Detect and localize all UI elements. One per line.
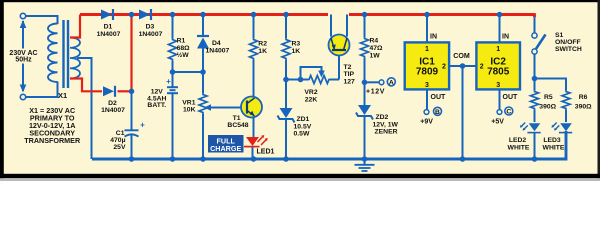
transformer X1 primary winding xyxy=(48,24,57,83)
svg-text:R5: R5 xyxy=(544,94,553,101)
svg-text:CHARGE: CHARGE xyxy=(210,144,241,153)
node terminal C xyxy=(497,110,502,115)
svg-text:0.5W: 0.5W xyxy=(294,131,310,138)
svg-text:390Ω: 390Ω xyxy=(539,103,556,110)
battery BATT 12V 4.5AH xyxy=(172,72,174,87)
svg-text:BC548: BC548 xyxy=(227,122,248,129)
svg-text:10K: 10K xyxy=(183,107,196,114)
node AC terminal top xyxy=(20,13,25,18)
resistor R6 390ohm xyxy=(562,90,570,110)
wire top +12V rail left segment xyxy=(80,13,328,16)
svg-text:470µ: 470µ xyxy=(110,137,125,144)
wire junction to R6 xyxy=(535,79,567,91)
zener ZD1 10.5V xyxy=(285,80,287,109)
svg-text:IN: IN xyxy=(502,33,509,40)
svg-text:R2: R2 xyxy=(258,41,267,48)
svg-text:50Hz: 50Hz xyxy=(15,57,32,64)
wire COM to ground rail xyxy=(462,66,464,159)
svg-text:C: C xyxy=(506,109,511,116)
LED2 white xyxy=(529,123,541,131)
VR2 wiper loop xyxy=(301,67,322,80)
node rail D4 xyxy=(200,12,206,18)
node ZD2 ground rail xyxy=(362,156,368,162)
svg-text:T2: T2 xyxy=(344,64,352,71)
node junction D1/D3 xyxy=(129,12,135,18)
op-amp IC2 7805 regulator xyxy=(476,42,520,89)
svg-text:R6: R6 xyxy=(579,94,588,101)
node ZD1 ground rail xyxy=(283,156,289,162)
wire D2 junction down through C1 to ground rail xyxy=(131,91,133,129)
wire T1 emitter to LED1 xyxy=(253,117,255,138)
svg-text:1N4007: 1N4007 xyxy=(206,47,230,54)
svg-text:12V, 1W: 12V, 1W xyxy=(373,121,399,128)
svg-text:1N4007: 1N4007 xyxy=(101,107,125,114)
svg-text:BATT.: BATT. xyxy=(147,102,166,109)
svg-text:TIP: TIP xyxy=(344,71,355,78)
wire IC2 OUT xyxy=(499,90,501,110)
border frame xyxy=(0,0,600,2)
resistor R5 390ohm xyxy=(534,79,536,91)
svg-text:A: A xyxy=(389,80,394,87)
svg-text:3: 3 xyxy=(496,82,500,89)
svg-text:R1: R1 xyxy=(177,38,186,45)
svg-text:68Ω: 68Ω xyxy=(177,45,191,52)
svg-text:WHITE: WHITE xyxy=(543,145,565,152)
resistor R4 47ohm xyxy=(364,15,366,38)
resistor R2 1K xyxy=(253,15,255,39)
svg-text:47Ω: 47Ω xyxy=(370,45,384,52)
transformer X1 core xyxy=(62,20,64,88)
wire secondary bottom to D2 (red) xyxy=(70,79,102,92)
wire ground rail xyxy=(92,131,566,159)
node COM ground rail xyxy=(460,156,466,162)
node junction D2/C1 xyxy=(129,89,135,95)
svg-text:+9V: +9V xyxy=(420,118,433,125)
svg-text:10.5V: 10.5V xyxy=(294,123,312,130)
svg-text:OUT: OUT xyxy=(503,94,519,101)
node switch R5/R6 junction xyxy=(532,76,538,82)
resistor R1 68ohm xyxy=(172,15,174,39)
node AC terminal bottom xyxy=(20,94,25,99)
svg-text:X1: X1 xyxy=(58,91,67,100)
svg-text:390Ω: 390Ω xyxy=(575,103,592,110)
svg-text:7805: 7805 xyxy=(487,67,510,78)
svg-text:7809: 7809 xyxy=(416,67,439,78)
svg-text:ON/OFF: ON/OFF xyxy=(555,39,581,46)
node rail R4 xyxy=(362,12,368,18)
wire rail to IC2 IN xyxy=(499,15,501,43)
node rail IC1 IN xyxy=(424,12,430,18)
svg-text:D1: D1 xyxy=(104,24,113,31)
svg-text:ZENER: ZENER xyxy=(375,129,398,136)
svg-text:R3: R3 xyxy=(292,41,301,48)
node rail R3 xyxy=(283,12,289,18)
LED1 red xyxy=(246,137,259,146)
node R1 battery xyxy=(170,69,176,75)
svg-text:TRANSFORMER: TRANSFORMER xyxy=(24,136,81,145)
svg-text:OUT: OUT xyxy=(431,94,447,101)
svg-text:D3: D3 xyxy=(146,24,155,31)
svg-text:T1: T1 xyxy=(233,115,241,122)
svg-text:SWITCH: SWITCH xyxy=(555,46,582,53)
svg-text:LED1: LED1 xyxy=(257,148,275,155)
potentiometer VR2 22K xyxy=(308,76,330,84)
svg-text:COM: COM xyxy=(453,52,470,60)
node LED1 ground rail xyxy=(251,156,257,162)
diode D4 1N4007 xyxy=(202,15,204,37)
svg-text:½W: ½W xyxy=(177,51,190,59)
VR1 wiper arrow xyxy=(208,107,241,109)
wire to terminal A xyxy=(365,81,379,83)
wire top +12V rail right segment xyxy=(349,13,535,16)
node LED2 ground rail xyxy=(532,156,538,162)
svg-text:IN: IN xyxy=(430,33,437,40)
svg-text:D4: D4 xyxy=(212,40,221,47)
svg-text:LED3: LED3 xyxy=(543,137,561,144)
wire secondary top to rail (red) xyxy=(70,15,80,38)
svg-text:S1: S1 xyxy=(555,32,564,39)
node rail R2 xyxy=(251,12,257,18)
svg-text:1N4007: 1N4007 xyxy=(139,31,163,38)
node rail R1 xyxy=(170,12,176,18)
wire IC1 OUT xyxy=(426,90,428,110)
wire AC top to primary xyxy=(26,16,58,24)
transistor T1 BC548 xyxy=(241,97,262,118)
node VR1 ground rail xyxy=(200,156,206,162)
wire rail drop to D2 row (red) xyxy=(130,15,132,92)
node C1 at ground rail xyxy=(129,156,135,162)
svg-text:3: 3 xyxy=(425,82,429,89)
svg-text:1N4007: 1N4007 xyxy=(97,31,121,38)
zener ZD2 12V 1W xyxy=(358,105,371,115)
node R3 VR2 row xyxy=(283,77,289,83)
svg-text:25V: 25V xyxy=(113,144,126,151)
wire AC double arrow xyxy=(22,21,24,49)
diode D1 1N4007 xyxy=(101,10,112,20)
wire T2 base down to VR2 xyxy=(338,56,340,80)
op-amp IC1 7809 regulator xyxy=(405,42,449,89)
wire rail corner to switch (red) xyxy=(533,13,536,17)
wire VR2 row xyxy=(286,79,308,81)
svg-text:12V: 12V xyxy=(151,88,164,95)
node label A xyxy=(387,78,395,86)
wire rail to IC1 IN xyxy=(426,15,428,43)
svg-text:1: 1 xyxy=(496,46,500,53)
label FULL CHARGE xyxy=(208,135,244,153)
svg-text:1: 1 xyxy=(425,46,429,53)
svg-text:1W: 1W xyxy=(370,52,381,59)
svg-text:+5V: +5V xyxy=(491,118,504,125)
node terminal B xyxy=(424,110,429,115)
svg-text:+: + xyxy=(140,121,145,130)
diode D3 1N4007 xyxy=(139,10,150,20)
svg-text:2: 2 xyxy=(442,64,446,71)
node VR2 loop xyxy=(298,77,304,83)
node A junction xyxy=(362,80,368,86)
diode D2 1N4007 xyxy=(103,86,114,96)
svg-text:ZD2: ZD2 xyxy=(376,114,389,121)
LED3 white xyxy=(560,123,572,131)
node COM junction xyxy=(460,63,466,69)
node rail IC2 IN xyxy=(497,12,503,18)
svg-text:127: 127 xyxy=(344,79,356,86)
ground symbol xyxy=(364,159,366,165)
transformer X1 secondary winding xyxy=(70,38,80,79)
svg-text:1K: 1K xyxy=(292,48,301,55)
svg-text:2: 2 xyxy=(480,64,484,71)
svg-text:+12V: +12V xyxy=(366,89,385,96)
svg-text:B: B xyxy=(435,109,440,116)
svg-text:VR1: VR1 xyxy=(182,99,195,106)
potentiometer VR1 10K xyxy=(202,72,204,93)
wire COM between IC1 and IC2 xyxy=(449,65,477,67)
node D4 VR1 xyxy=(200,69,206,75)
node battery ground rail xyxy=(170,156,176,162)
svg-text:1K: 1K xyxy=(258,48,267,55)
svg-text:D2: D2 xyxy=(108,100,117,107)
svg-text:R4: R4 xyxy=(370,38,379,45)
resistor R3 1K xyxy=(285,15,287,39)
svg-text:22K: 22K xyxy=(305,97,318,104)
svg-text:+: + xyxy=(166,77,171,86)
svg-text:LED2: LED2 xyxy=(509,137,527,144)
svg-text:C1: C1 xyxy=(116,130,125,137)
transistor T2 TIP127 xyxy=(330,15,332,37)
svg-text:ZD1: ZD1 xyxy=(297,116,310,123)
wire secondary center tap xyxy=(77,58,92,159)
svg-text:WHITE: WHITE xyxy=(508,145,530,152)
capacitor C1 470u 25V xyxy=(125,129,139,131)
wire R1/D4 connector row xyxy=(173,71,204,73)
wire AC bottom to primary xyxy=(26,82,58,98)
switch S1 xyxy=(534,17,536,33)
svg-text:VR2: VR2 xyxy=(304,89,317,96)
